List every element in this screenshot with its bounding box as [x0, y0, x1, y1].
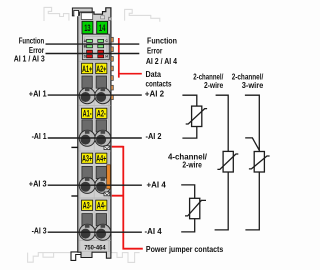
svg-text:2-wire: 2-wire: [182, 161, 202, 170]
wire +AI1/+AI2 row line: [48, 94, 142, 96]
ghost outline of left neighbour module (top): [44, 7, 69, 21]
svg-text:750-464: 750-464: [84, 245, 106, 252]
svg-text:+AI 3: +AI 3: [29, 179, 47, 188]
ghost outline of left neighbour module (bottom): [28, 253, 71, 263]
svg-text:AI 1 / AI 3: AI 1 / AI 3: [14, 55, 45, 64]
RTD symbol 2: [217, 151, 238, 172]
svg-text:AI 2 / AI 4: AI 2 / AI 4: [146, 57, 178, 66]
LED E (red): [87, 50, 93, 53]
svg-text:Function: Function: [19, 36, 45, 45]
wire +AI3/+AI4 row line: [48, 184, 142, 186]
red power jumper bracket and callout: [112, 146, 143, 249]
RTD symbol 1: [186, 106, 207, 126]
terminal number label 13: [82, 21, 93, 34]
sensor circuit 2 (middle) wires: [215, 95, 229, 230]
red data contacts callout line: [119, 38, 142, 78]
svg-text:-AI 1: -AI 1: [32, 132, 47, 141]
sensor circuit 1 (2-wire) wires: [182, 95, 196, 138]
module DIN-rail latch bracket (bottom left): [71, 252, 81, 261]
svg-text:Function: Function: [147, 37, 177, 46]
module centre foot: [81, 252, 92, 258]
LED letter marks: [84, 39, 109, 58]
svg-text:A3-: A3-: [83, 201, 92, 211]
small top tab: [101, 16, 105, 19]
LED F (red): [87, 55, 93, 58]
LED H (red): [98, 55, 104, 58]
release lever hook: [72, 8, 92, 16]
yellow terminal label A2+: [96, 63, 107, 74]
wire function callout line: [46, 43, 140, 45]
screw terminal circles row 1: [79, 87, 111, 103]
svg-text:14: 14: [99, 23, 106, 34]
screw terminal circles row 3: [79, 177, 111, 193]
LED D (green): [98, 45, 104, 48]
svg-text:+AI 2: +AI 2: [145, 89, 165, 98]
svg-text:A2-: A2-: [97, 109, 106, 119]
terminal number label 14: [97, 21, 108, 34]
left side power contact dash 1: [71, 146, 77, 148]
svg-text:A1-: A1-: [83, 109, 92, 119]
power jumper contact flag 1: [104, 146, 110, 150]
screw terminal circles row 2: [79, 130, 111, 146]
ghost outline of right neighbour module (top): [125, 9, 160, 21]
left side power contact dash 2: [71, 195, 77, 197]
wire entry squares row 1: [82, 76, 107, 88]
yellow terminal label A3+: [82, 153, 93, 164]
sensor circuit 3 (3-wire) wires: [245, 95, 259, 230]
svg-text:-AI 3: -AI 3: [32, 226, 47, 235]
svg-text:contacts: contacts: [146, 80, 172, 89]
RTD symbol 3: [249, 152, 270, 173]
svg-text:Error: Error: [147, 46, 162, 55]
svg-text:+AI 4: +AI 4: [147, 181, 167, 190]
module centre divider line: [93, 62, 95, 240]
module 750-464 body: [78, 8, 111, 252]
screw terminal circles row 4: [79, 224, 111, 240]
svg-text:Data: Data: [146, 70, 162, 79]
svg-text:A1+: A1+: [82, 64, 92, 74]
svg-text:-AI 2: -AI 2: [146, 132, 163, 141]
orange power jumper blade: [107, 165, 111, 189]
module inner bevel lines: [80, 16, 109, 251]
hook inner white slot: [74, 10, 79, 16]
LED G (red): [98, 50, 104, 53]
svg-text:Power jumper contacts: Power jumper contacts: [146, 245, 224, 254]
yellow terminal label A4-: [96, 200, 107, 211]
power jumper contact flag 2: [104, 192, 110, 196]
sensor circuit 4 (4-channel/2-wire) wires: [181, 185, 195, 232]
svg-text:-AI 4: -AI 4: [145, 227, 163, 236]
module right foot: [106, 252, 111, 259]
wire entry squares row 4: [82, 214, 107, 226]
wire -AI3/-AI4 row line: [48, 231, 142, 233]
wire entry squares row 3: [82, 166, 107, 178]
svg-text:A2+: A2+: [96, 64, 106, 74]
yellow terminal label A2-: [96, 108, 107, 119]
LED B (green): [87, 45, 93, 48]
svg-text:13: 13: [84, 23, 90, 34]
wire -AI1/-AI2 row line: [48, 137, 142, 139]
svg-text:2-wire: 2-wire: [204, 81, 224, 90]
svg-text:+AI 1: +AI 1: [29, 89, 47, 98]
svg-text:A4+: A4+: [96, 154, 106, 164]
LED C (green): [98, 39, 104, 42]
svg-text:A3+: A3+: [82, 154, 92, 164]
ghost outline of right neighbour module (bottom): [111, 253, 139, 263]
wire error callout line: [46, 53, 140, 55]
yellow terminal label A4+: [96, 153, 107, 164]
LED A (green): [87, 39, 93, 42]
LED block: [82, 34, 109, 60]
module section divider lines: [78, 61, 110, 240]
svg-text:3-wire: 3-wire: [242, 81, 264, 90]
yellow terminal label A1+: [82, 63, 93, 74]
small top-right box: [109, 17, 111, 20]
RTD symbol 4: [185, 198, 206, 218]
svg-text:A4-: A4-: [97, 201, 106, 211]
yellow terminal label A3-: [82, 200, 93, 211]
wire entry squares row 2: [82, 120, 107, 132]
latch slot (white): [81, 13, 92, 20]
orange data contacts on right edge: [111, 37, 113, 99]
yellow terminal label A1-: [82, 108, 93, 119]
